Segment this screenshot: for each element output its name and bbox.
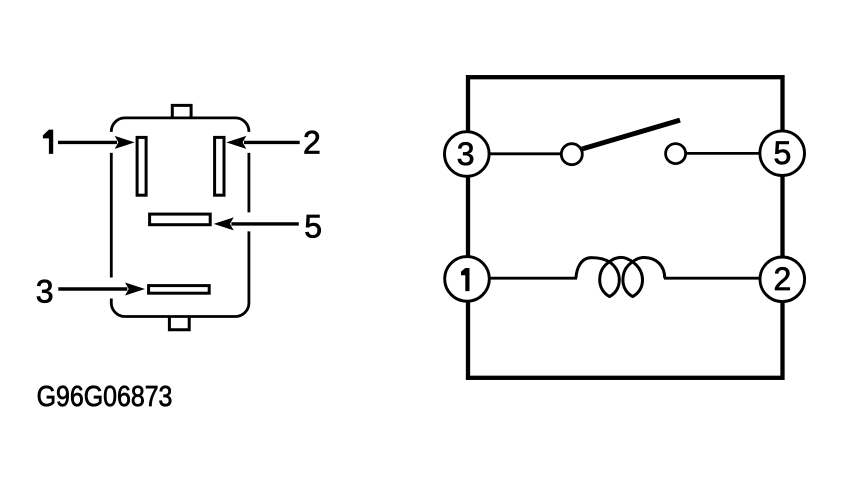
arrow callout 5: [214, 217, 299, 230]
label 1: [43, 130, 53, 154]
wire terminal 3 to contact: [467, 152, 572, 155]
terminal circle 1: [445, 257, 490, 302]
svg-text:5: 5: [774, 135, 792, 171]
top locating tab: [172, 105, 191, 118]
switch blade: [582, 120, 680, 149]
pin 3 slot: [149, 286, 210, 294]
switch contact right: [666, 144, 686, 164]
bottom locating tab: [169, 317, 189, 330]
arrow callout 1: [58, 136, 135, 149]
wire coil to terminal 2: [664, 277, 782, 280]
switch contact left: [561, 144, 582, 165]
wire terminal 1 to coil: [467, 277, 577, 280]
svg-text:G96G06873: G96G06873: [37, 380, 173, 412]
pin 5 slot: [150, 214, 211, 225]
terminal circle 5: [760, 131, 805, 176]
svg-text:3: 3: [36, 274, 54, 310]
terminal circle 3: [445, 132, 490, 177]
svg-text:5: 5: [304, 208, 322, 244]
svg-text:3: 3: [457, 136, 475, 172]
svg-text:2: 2: [303, 124, 321, 160]
relay coil: [576, 257, 665, 296]
pin 2 slot: [215, 137, 224, 195]
terminal circle 2: [760, 257, 805, 302]
wire contact to terminal 5: [676, 152, 782, 155]
svg-text:2: 2: [774, 261, 792, 297]
arrow callout 2: [226, 136, 299, 149]
schematic box: [468, 77, 783, 378]
arrow callout 3: [58, 283, 145, 296]
relay connector body outline: [111, 118, 249, 317]
pin 1 slot: [137, 137, 146, 195]
